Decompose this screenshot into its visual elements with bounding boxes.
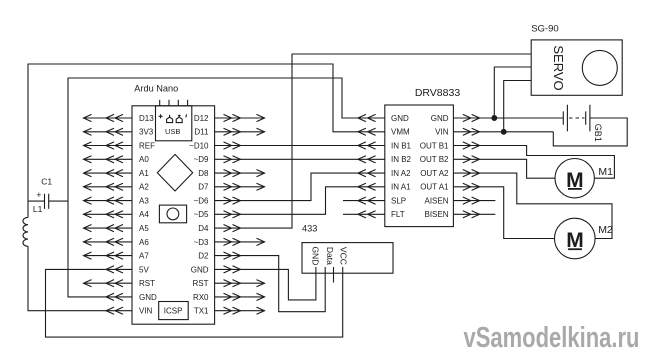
svg-text:OUT B1: OUT B1 bbox=[420, 141, 449, 150]
svg-text:SG-90: SG-90 bbox=[531, 23, 558, 34]
pin OUT A1 of U2 (right) with arrow bbox=[420, 183, 479, 192]
wire OUT B2 to M1 left terminal bbox=[453, 159, 555, 178]
svg-text:RX0: RX0 bbox=[193, 293, 209, 302]
svg-text:A4: A4 bbox=[139, 210, 149, 219]
pin D7 of U1 (right) with arrow bbox=[198, 183, 264, 192]
pin VMM of U2 (left) with arrow bbox=[358, 128, 410, 137]
pin D11 of U1 (right) with arrow bbox=[194, 128, 264, 137]
pin GND of U2 (right) with arrow bbox=[431, 114, 480, 123]
radio module 433 body bbox=[302, 224, 393, 274]
motor M2 bbox=[555, 218, 613, 259]
pin ~D6 of U1 (right) with arrow bbox=[194, 197, 241, 206]
svg-text:~D3: ~D3 bbox=[194, 238, 209, 247]
svg-text:VIN: VIN bbox=[435, 128, 449, 137]
svg-text:L1: L1 bbox=[33, 204, 43, 214]
wire L1 to top rail to VMM pin of U2 bbox=[28, 64, 385, 217]
ICSP header box on U1 bbox=[159, 302, 189, 320]
pin 3V3 of U1 (left) with arrow bbox=[84, 128, 154, 137]
svg-text:USB: USB bbox=[165, 127, 180, 136]
svg-text:OUT B2: OUT B2 bbox=[420, 155, 449, 164]
svg-text:+: + bbox=[36, 190, 41, 200]
svg-text:3V3: 3V3 bbox=[139, 128, 154, 137]
wire servo pin2 to GND node bbox=[494, 67, 531, 118]
pin GND of U1 (left) with arrow bbox=[106, 293, 157, 302]
svg-text:GND: GND bbox=[431, 114, 449, 123]
pin A4 of U1 (left) with arrow bbox=[84, 210, 150, 219]
wire GND row of U2 to battery GB1 bbox=[453, 117, 563, 119]
IC U2 DRV8833 body bbox=[385, 87, 461, 227]
pin BISEN of U2 (right) with arrow bbox=[424, 210, 495, 219]
wire 5V pin of U1 to bottom rail to VCC of 433 module bbox=[46, 267, 343, 337]
svg-text:D13: D13 bbox=[139, 114, 154, 123]
wire OUT A2 to M2 right terminal bbox=[453, 173, 612, 238]
pin OUT B2 of U2 (right) with arrow bbox=[420, 155, 480, 164]
USB connector pins (4 stubs on top) bbox=[160, 100, 188, 106]
svg-text:D7: D7 bbox=[198, 183, 209, 192]
pin ~D5 of U1 (right) with arrow bbox=[194, 210, 241, 219]
svg-text:GND: GND bbox=[139, 293, 157, 302]
svg-text:GND: GND bbox=[391, 114, 409, 123]
svg-text:A3: A3 bbox=[139, 197, 149, 206]
svg-text:BISEN: BISEN bbox=[424, 210, 448, 219]
svg-text:SLP: SLP bbox=[391, 197, 406, 206]
inductor L1 bbox=[23, 204, 43, 246]
pin REF of U1 (left) with arrow bbox=[84, 141, 156, 150]
pin A1 of U1 (left) with arrow bbox=[84, 169, 150, 178]
node junction dot on VIN row bbox=[501, 129, 506, 134]
svg-text:D4: D4 bbox=[198, 224, 209, 233]
svg-text:A0: A0 bbox=[139, 155, 149, 164]
pin 5V of U1 (left) with arrow bbox=[106, 265, 149, 274]
USB polarity symbols (+, trident icons, quote) bbox=[159, 114, 187, 122]
svg-text:~D9: ~D9 bbox=[194, 155, 209, 164]
svg-text:VMM: VMM bbox=[391, 128, 410, 137]
pin D13 of U1 (left) with arrow bbox=[84, 114, 155, 123]
wire VIN to L1 (left rail bottom) bbox=[28, 246, 132, 310]
battery GB1 bbox=[563, 105, 603, 142]
pin A0 of U1 (left) with arrow bbox=[84, 155, 150, 164]
wire servo pin3 to VIN node bbox=[504, 81, 532, 132]
pin IN B2 of U2 (left) with arrow bbox=[358, 155, 412, 164]
svg-text:C1: C1 bbox=[41, 177, 52, 187]
svg-text:A2: A2 bbox=[139, 183, 149, 192]
svg-text:A7: A7 bbox=[139, 252, 149, 261]
wire C1 branch right to GND rail bbox=[49, 200, 68, 202]
svg-text:VCC: VCC bbox=[338, 247, 348, 265]
pin A5 of U1 (left) with arrow bbox=[84, 224, 150, 233]
pin D2 of U1 (right) with arrow bbox=[198, 252, 240, 261]
wire ~D10 to IN B1 bbox=[215, 145, 385, 147]
wire battery return to VIN row bbox=[553, 118, 627, 146]
pin A2 of U1 (left) with arrow bbox=[84, 183, 150, 192]
svg-text:IN B2: IN B2 bbox=[391, 155, 412, 164]
svg-text:IN A2: IN A2 bbox=[391, 169, 411, 178]
svg-text:Ardu Nano: Ardu Nano bbox=[134, 83, 178, 93]
capacitor C1 bbox=[36, 177, 52, 209]
svg-text:GND: GND bbox=[311, 246, 321, 265]
pin GND of U1 (right) with arrow bbox=[191, 265, 241, 274]
svg-text:RST: RST bbox=[193, 279, 209, 288]
svg-text:DRV8833: DRV8833 bbox=[415, 87, 460, 99]
svg-text:SERVO: SERVO bbox=[551, 45, 566, 90]
svg-text:D11: D11 bbox=[194, 128, 209, 137]
pin A7 of U1 (left) with arrow bbox=[84, 252, 150, 261]
svg-text:433: 433 bbox=[302, 224, 317, 234]
svg-text:RST: RST bbox=[139, 279, 155, 288]
pin A3 of U1 (left) with arrow bbox=[84, 197, 150, 206]
pin TX1 of U1 (right) with arrow bbox=[194, 307, 265, 316]
pin IN B1 of U2 (left) with arrow bbox=[358, 141, 412, 150]
svg-text:GB1: GB1 bbox=[593, 124, 603, 142]
svg-text:Data: Data bbox=[325, 247, 335, 265]
pin D8 of U1 (right) with arrow bbox=[198, 169, 264, 178]
pin FLT of U2 (left) with arrow bbox=[343, 210, 405, 219]
wire ~D6 to IN A2 bbox=[215, 173, 385, 201]
pin RST of U1 (right) with arrow bbox=[193, 279, 265, 288]
wire ~D9 to IN B2 bbox=[215, 158, 385, 160]
pin ~D10 of U1 (right) with arrow bbox=[189, 141, 240, 150]
svg-text:~D5: ~D5 bbox=[194, 210, 209, 219]
wire VIN row of U2 to battery return bbox=[453, 131, 553, 133]
wire D4 to servo signal pin bbox=[215, 54, 532, 228]
pin RX0 of U1 (right) with arrow bbox=[193, 293, 265, 302]
svg-text:~D10: ~D10 bbox=[189, 141, 209, 150]
svg-text:D2: D2 bbox=[198, 252, 209, 261]
pin VIN of U1 (left) with arrow bbox=[106, 307, 153, 316]
svg-text:FLT: FLT bbox=[391, 210, 405, 219]
USB connector block on U1 bbox=[156, 106, 192, 141]
wire GND (right) of U1 to GND of 433 module bbox=[215, 267, 316, 300]
node junction dot on GND row bbox=[492, 116, 497, 121]
svg-text:~D6: ~D6 bbox=[194, 197, 209, 206]
wire OUT B1 to M1 right terminal bbox=[453, 146, 614, 179]
svg-text:ICSP: ICSP bbox=[164, 307, 183, 316]
pin SLP of U2 (left) with arrow bbox=[343, 197, 406, 206]
svg-text:5V: 5V bbox=[139, 265, 149, 274]
svg-text:AISEN: AISEN bbox=[424, 197, 448, 206]
svg-text:A6: A6 bbox=[139, 238, 149, 247]
pin IN A1 of U2 (left) with arrow bbox=[358, 183, 411, 192]
svg-text:D12: D12 bbox=[194, 114, 209, 123]
svg-text:OUT A1: OUT A1 bbox=[420, 183, 449, 192]
svg-text:vSamodelkina.ru: vSamodelkina.ru bbox=[464, 322, 640, 354]
wire ~D5 to IN A1 bbox=[215, 187, 385, 215]
svg-text:IN B1: IN B1 bbox=[391, 141, 412, 150]
motor M1 bbox=[555, 159, 613, 198]
svg-text:GND: GND bbox=[191, 265, 209, 274]
svg-text:D8: D8 bbox=[198, 169, 209, 178]
svg-text:OUT A2: OUT A2 bbox=[420, 169, 449, 178]
pin OUT A2 of U2 (right) with arrow bbox=[420, 169, 479, 178]
wire OUT A1 to M2 left terminal bbox=[453, 187, 554, 239]
pin A6 of U1 (left) with arrow bbox=[84, 238, 150, 247]
pin ~D9 of U1 (right) with arrow bbox=[194, 155, 241, 164]
svg-text:TX1: TX1 bbox=[194, 307, 209, 316]
wire GND pin of U1 to inner rail to GND pin of U2 bbox=[68, 78, 385, 297]
pin VIN of U2 (right) with arrow bbox=[435, 128, 479, 137]
pin IN A2 of U2 (left) with arrow bbox=[358, 169, 411, 178]
servo SG-90 body bbox=[531, 23, 622, 95]
svg-text:IN A1: IN A1 bbox=[391, 183, 411, 192]
svg-text:REF: REF bbox=[139, 141, 155, 150]
pin AISEN of U2 (right) with arrow bbox=[424, 197, 495, 206]
pin D4 of U1 (right) with arrow bbox=[198, 224, 240, 233]
pin GND of U2 (left) with arrow bbox=[358, 114, 409, 123]
svg-text:A5: A5 bbox=[139, 224, 149, 233]
crystal box with circle inside U1 bbox=[159, 205, 186, 223]
wire C1 branch left bbox=[28, 200, 45, 202]
IC U1 Ardu Nano (Arduino Nano) body bbox=[132, 83, 215, 324]
pin ~D3 of U1 (right) with arrow bbox=[194, 238, 265, 247]
pin OUT B1 of U2 (right) with arrow bbox=[420, 141, 480, 150]
svg-text:VIN: VIN bbox=[139, 307, 153, 316]
wire D2 to Data of 433 module bbox=[215, 256, 326, 312]
pin D12 of U1 (right) with arrow bbox=[194, 114, 265, 123]
svg-text:A1: A1 bbox=[139, 169, 149, 178]
pin RST of U1 (left) with arrow bbox=[84, 279, 156, 288]
svg-text:M2: M2 bbox=[598, 224, 613, 236]
svg-text:M1: M1 bbox=[598, 166, 613, 178]
diamond symbol inside U1 bbox=[157, 154, 192, 191]
stub pin of 433 module bbox=[333, 267, 335, 283]
